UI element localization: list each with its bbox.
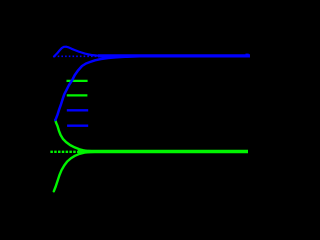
green level segment S1 (67, 80, 88, 82)
blue branch of splitting trajectory (junction up to upper steady state) (55, 56, 140, 120)
small tick at right end of blue line (246, 54, 249, 56)
blue level segment S4 (67, 125, 88, 127)
blue overshoot curve (solution from above) (54, 47, 130, 57)
blue level segment S3 (67, 109, 88, 111)
blue dotted asymptote line (upper steady state) (54, 55, 250, 57)
green solid asymptote overlay (merged curves, lower) (78, 150, 248, 154)
blue solid asymptote overlay (merged curves, upper) (98, 54, 250, 57)
green trajectory from below (rising to lower steady state) (54, 152, 110, 192)
green branch of splitting trajectory (junction down to lower steady state) (55, 120, 105, 151)
green dotted asymptote line (lower steady state) (50, 151, 248, 153)
green level segment S2 (67, 94, 88, 96)
